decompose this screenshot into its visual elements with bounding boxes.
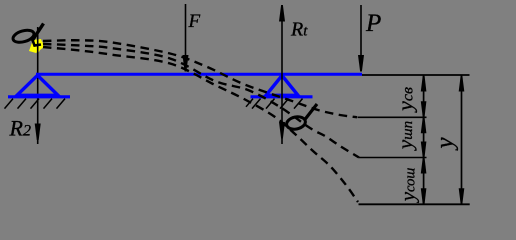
extension line 1 [358, 116, 427, 118]
wire: left support vertical line [37, 27, 39, 144]
node d: script letter near support B [285, 104, 317, 131]
force P line [360, 5, 362, 71]
dim B arrowhead down (y bottom) [459, 188, 465, 204]
reaction R1 arrowhead (up) [279, 5, 285, 22]
dimension line A [423, 75, 425, 204]
force F line [185, 4, 187, 71]
dim A arrowhead up (segment y_shp top) [421, 118, 427, 134]
force P arrowhead [358, 55, 364, 72]
support A base line [8, 95, 70, 98]
svg-text:P: P [365, 10, 381, 37]
support A triangle (left, blue) [17, 75, 58, 95]
beam (blue) [36, 73, 362, 76]
wire: reaction R1 vertical line [281, 5, 283, 144]
dim A arrowhead down (segment y_sosh bottom) [421, 188, 427, 204]
dimension line B (total y) [461, 75, 463, 204]
node alpha: script letter top-left [12, 24, 44, 46]
dim A arrowhead down (segment y_shp bottom) [421, 142, 427, 158]
deflection curve 3 (dashed) [43, 47, 358, 202]
force R2 arrowhead (down) [35, 124, 41, 141]
deflection curve 2 (dashed) [43, 44, 359, 158]
support B triangle (right, blue) [266, 76, 298, 96]
deflection curve 1 (dashed) [43, 40, 357, 117]
dim B arrowhead up (y top) [459, 76, 465, 92]
support B hatching [246, 99, 303, 109]
svg-text:у: у [432, 137, 459, 152]
support B base line [251, 95, 313, 98]
svg-text:F: F [188, 11, 201, 32]
top extension line [362, 74, 470, 76]
dim A arrowhead down (segment y_sv bottom) [421, 101, 427, 117]
support A hatching [5, 99, 66, 109]
bottom extension line 3 [359, 203, 470, 205]
extension line 2 [359, 157, 427, 159]
arrowhead below support B (down) [279, 122, 285, 139]
yellow highlight blob [29, 39, 44, 53]
dim A arrowhead up (segment y_sosh top) [421, 158, 427, 174]
dim A arrowhead up (segment y_sv top) [421, 76, 427, 92]
force F arrowhead [183, 55, 189, 72]
